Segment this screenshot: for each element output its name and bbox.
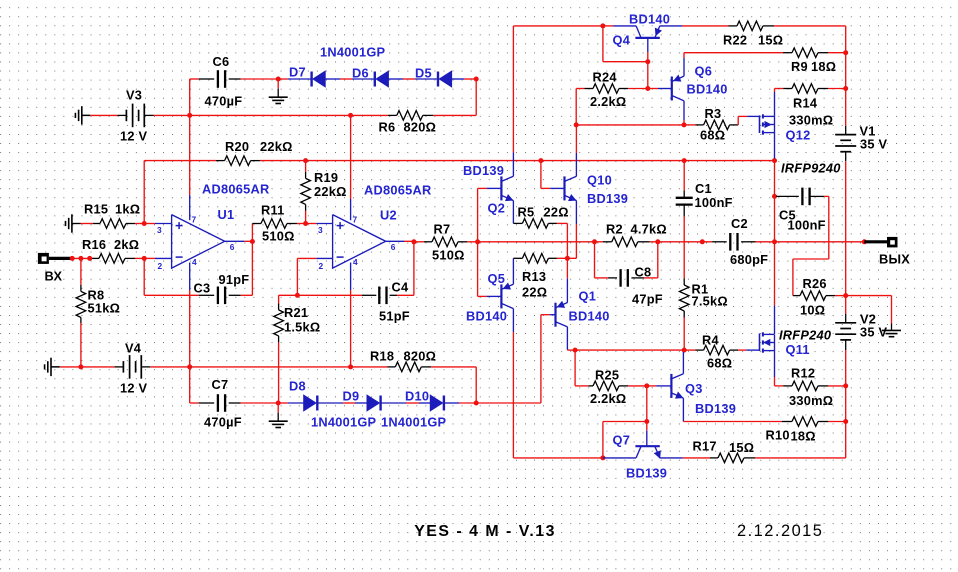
svg-text:Q11: Q11 [786, 342, 810, 357]
wire R6 right to diode column [423, 114, 434, 116]
wire R18 right to diode column [421, 366, 431, 368]
resistor R20 [225, 156, 251, 166]
svg-text:68Ω: 68Ω [707, 356, 732, 371]
battery V3 12V [125, 110, 127, 122]
svg-text:2.2kΩ: 2.2kΩ [590, 391, 626, 406]
resistor R14 [792, 84, 818, 94]
wire C4 loop down from U2 output [413, 242, 415, 295]
wire C1 bottom to R1 [683, 205, 685, 217]
node R12 rail junction [843, 383, 848, 388]
wire C5 node to output row [774, 196, 776, 241]
battery V4 12V [122, 361, 124, 373]
wire R16 to U1 pin2 [125, 257, 135, 259]
wire R26 right to rail junction [826, 295, 835, 297]
svg-text:C3: C3 [194, 281, 211, 296]
node V4 C7 junction [187, 364, 192, 369]
svg-text:2.2kΩ: 2.2kΩ [590, 94, 626, 109]
capacitor C8 47pF [619, 269, 621, 287]
ground for V3 [74, 113, 76, 118]
node R24 Q10 R3 junction [574, 122, 579, 127]
mosfet Q12 IRFP9240 [759, 115, 761, 133]
wire R10 row [683, 421, 782, 423]
wire R3 right jog up to Q12 gate [730, 124, 739, 126]
svg-text:R13: R13 [522, 269, 546, 284]
capacitor C2 680pF [712, 241, 727, 243]
svg-text:22Ω: 22Ω [544, 205, 569, 220]
wire Q7 emitter to R17 [660, 457, 683, 459]
resistor R22 [737, 21, 763, 31]
svg-text:U1: U1 [218, 207, 235, 222]
svg-text:R15: R15 [84, 202, 108, 217]
resistor R11 [252, 223, 261, 225]
resistor R8 vertical [80, 258, 82, 285]
svg-text:330mΩ: 330mΩ [789, 113, 833, 128]
svg-text:12 V: 12 V [120, 381, 148, 396]
svg-text:V3: V3 [126, 88, 142, 103]
svg-text:BD139: BD139 [463, 163, 504, 178]
wire C8 left branch [594, 242, 596, 278]
wire mid rail to C1 [306, 160, 685, 162]
svg-text:1N4001GP: 1N4001GP [311, 415, 377, 430]
wire midrail to V2 top [845, 296, 847, 314]
wire V1 bottom to midrail [845, 152, 847, 162]
svg-text:18Ω: 18Ω [791, 429, 816, 444]
wire C3 to U1 output [229, 294, 241, 296]
svg-text:4: 4 [353, 257, 358, 267]
node Q7 row junction [600, 455, 605, 460]
node R10 rail junction [843, 419, 848, 424]
wire Q4 base node down to R24 node [647, 62, 649, 89]
resistor R21 vertical [278, 295, 280, 303]
svg-text:R6: R6 [379, 120, 396, 135]
svg-text:BD140: BD140 [629, 12, 670, 27]
svg-text:R20: R20 [225, 139, 249, 154]
battery V1 35V [835, 134, 856, 136]
wire Q1 collector dropper to R4 row [566, 327, 568, 350]
ground at D7 node [277, 79, 279, 89]
wire Q7 base lead down [646, 422, 648, 431]
svg-text:D8: D8 [289, 379, 306, 394]
svg-text:C6: C6 [213, 54, 230, 69]
capacitor C3 91pF [217, 287, 219, 305]
svg-text:22Ω: 22Ω [522, 285, 547, 300]
wire main row R2 to C2 [658, 241, 712, 243]
svg-text:Q12: Q12 [786, 128, 811, 143]
wire C1 top lead from mid rail [683, 161, 685, 191]
node diode D8 anode ground junction [276, 401, 281, 406]
node C4 R21 pin2 junction [295, 293, 300, 298]
node Q4 base jog junction [645, 59, 650, 64]
node R11 R19 U2 pin3 junction [303, 221, 308, 226]
wire U1 pin4 supply [189, 263, 191, 291]
svg-text:ВХ: ВХ [45, 269, 63, 284]
svg-text:C7: C7 [212, 377, 229, 392]
svg-text:Q2: Q2 [488, 201, 506, 216]
wire Q11 source to R12 [774, 351, 776, 377]
node Q6 collector R3 junction [682, 122, 687, 127]
node U2 output junction [411, 239, 416, 244]
resistor R2 [595, 241, 604, 243]
wire U1 output pin6 [225, 240, 245, 242]
resistor R25 [575, 385, 588, 387]
wire V2 bottom rail [845, 340, 847, 350]
wire output row down to Q11 drain [774, 242, 776, 305]
wire Q6 base lead [648, 88, 658, 90]
svg-text:22kΩ: 22kΩ [314, 184, 347, 199]
svg-text:Q1: Q1 [579, 289, 597, 304]
wire Q7 collector lead [603, 457, 636, 459]
wire Q4 base dropper [647, 38, 649, 52]
svg-text:R4: R4 [702, 333, 719, 348]
node output row Q12 Q11 junction [772, 239, 777, 244]
diode D8 1N4001GP [316, 396, 318, 411]
svg-text:6: 6 [391, 242, 396, 252]
resistor R26 [793, 295, 800, 297]
svg-text:D5: D5 [415, 66, 432, 81]
wire Q4 base jog to top rail [603, 61, 648, 63]
wire R15 ground lead [81, 223, 94, 225]
wire Q7 base jog row [603, 421, 647, 423]
wire C6 to ground node [229, 78, 241, 80]
transistor Q1 BD140 [554, 303, 556, 327]
wire Q3 emitter dropper to R10 row [682, 398, 684, 421]
svg-text:35 V: 35 V [860, 137, 888, 152]
diode D7 1N4001GP [310, 72, 312, 87]
wire C5 right jog down to R26 [810, 195, 824, 197]
wire D10 cathode to junction [444, 402, 459, 404]
svg-text:R17: R17 [693, 439, 717, 454]
svg-text:18Ω: 18Ω [811, 59, 836, 74]
svg-text:R14: R14 [793, 96, 818, 111]
ground for R15 [65, 221, 67, 226]
wire Q11 channel vertical [774, 335, 776, 351]
wire to R18 [351, 366, 388, 368]
resistor R4 [704, 345, 730, 355]
svg-text:V4: V4 [125, 341, 142, 356]
svg-text:2kΩ: 2kΩ [114, 237, 139, 252]
svg-text:10Ω: 10Ω [800, 303, 825, 318]
node diode D7 anode ground junction [276, 77, 281, 82]
wire R17 right lead [744, 457, 755, 459]
connector VYH output [887, 237, 898, 248]
wire R21 top corner [279, 294, 298, 296]
svg-text:510Ω: 510Ω [432, 248, 465, 263]
svg-text:3: 3 [157, 225, 162, 235]
wire V3 ground lead [82, 114, 90, 116]
node R5 R13 Q1 emitter junction [565, 256, 570, 261]
node U1 inverting input junction [142, 256, 147, 261]
wire U2 pin4 supply [350, 263, 352, 291]
svg-text:BD139: BD139 [587, 191, 628, 206]
svg-text:R21: R21 [284, 305, 308, 320]
svg-text:68Ω: 68Ω [700, 128, 725, 143]
wire R4 left lead [684, 349, 695, 351]
wire D7 anode lead [278, 78, 288, 80]
ground at supply midpoint [882, 329, 901, 331]
svg-text:AD8065AR: AD8065AR [364, 183, 431, 198]
transistor Q10 BD139 [563, 176, 565, 200]
connector BX input [38, 253, 49, 264]
node Q1 collector R25 junction [573, 348, 578, 353]
wire D9 to D10 [381, 402, 406, 404]
wire BX to R16 [72, 257, 92, 259]
wire C7 drop from V4 junction [189, 367, 191, 403]
resistor R16 [99, 254, 125, 264]
svg-text:2.12.2015: 2.12.2015 [737, 522, 823, 540]
resistor R18 [395, 362, 421, 372]
wire Q4 emitter to R22 [660, 25, 682, 27]
svg-text:Q5: Q5 [488, 271, 506, 286]
node U1 noninverting input junction [142, 221, 147, 226]
resistor R13 [513, 257, 522, 259]
wire to R6 [351, 114, 388, 116]
svg-text:100nF: 100nF [788, 218, 826, 233]
wire R5 right down to R13 node [548, 222, 557, 224]
node U2 pin4 supply junction [348, 364, 353, 369]
svg-text:R2: R2 [606, 222, 623, 237]
svg-text:7.5kΩ: 7.5kΩ [692, 294, 728, 309]
capacitor C4 51pF [378, 287, 380, 305]
svg-text:Q7: Q7 [613, 433, 631, 448]
svg-text:R9: R9 [791, 59, 808, 74]
node V1 V2 R26 midrail junction [843, 293, 848, 298]
wire riser R18 to D10 [475, 367, 477, 403]
transistor Q2 BD139 [500, 176, 502, 200]
diode D9 [379, 396, 381, 411]
wire Q12 channel vertical [774, 116, 776, 132]
svg-text:BD139: BD139 [626, 466, 667, 481]
wire U1 output up to R11 [251, 224, 253, 242]
svg-text:Q3: Q3 [685, 381, 703, 396]
wire R13 right to emitter node [548, 257, 557, 259]
wire Q3 base lead [647, 385, 656, 387]
svg-text:R19: R19 [314, 170, 338, 185]
capacitor C6 470uF [217, 70, 219, 88]
svg-text:680pF: 680pF [730, 252, 768, 267]
wire Q10 base feed from mid rail [540, 161, 542, 189]
svg-text:R11: R11 [261, 203, 285, 218]
svg-text:U2: U2 [380, 208, 397, 223]
wire Q11 drain riser [774, 305, 776, 334]
svg-text:1N4001GP: 1N4001GP [381, 415, 447, 430]
svg-text:R12: R12 [791, 366, 815, 381]
capacitor C7 470uF [217, 394, 219, 412]
wire Q5 collector dropper to Q7 row [512, 309, 514, 332]
svg-text:R10: R10 [766, 428, 790, 443]
svg-text:47pF: 47pF [632, 292, 663, 307]
wire top rail from Q2 collector corner [513, 25, 603, 27]
svg-text:C4: C4 [392, 280, 409, 295]
svg-text:1kΩ: 1kΩ [115, 202, 140, 217]
svg-text:R5: R5 [518, 205, 535, 220]
node U2 pin7 supply junction [348, 113, 353, 118]
resistor R10 [792, 417, 818, 427]
svg-text:15Ω: 15Ω [758, 33, 783, 48]
wire Q1 base feed from diode row [540, 315, 542, 403]
wire main row R7 to R2 [478, 241, 595, 243]
wire Q6 collector dropper to R3 row [683, 101, 685, 120]
resistor R7 [414, 241, 424, 243]
svg-text:3: 3 [318, 225, 323, 235]
diode D10 [443, 396, 445, 411]
wire R15 to U1 pin3 [126, 223, 135, 225]
capacitor C5 100nF [801, 188, 803, 206]
diode D6 [374, 72, 376, 87]
wire top rail to Q4 collector [603, 25, 614, 27]
wire Q3 collector riser to R4 row [682, 352, 684, 374]
op-amp U2 AD8065AR [333, 215, 386, 269]
wire riser R7 to Q2 base [477, 188, 479, 241]
svg-text:51kΩ: 51kΩ [88, 301, 121, 316]
svg-text:35 V: 35 V [860, 325, 888, 340]
svg-text:R16: R16 [82, 237, 106, 252]
svg-text:2: 2 [158, 261, 163, 271]
wire C4 to pin2 junction [362, 294, 376, 296]
node R20 R19 rail junction [303, 158, 308, 163]
node rail Q12 source junction [772, 158, 777, 163]
wire R3 left lead [684, 124, 696, 126]
wire C2 to output connector [756, 241, 865, 243]
svg-text:15Ω: 15Ω [729, 440, 754, 455]
resistor R15 [100, 219, 126, 229]
wire Q12 drain to R14 [774, 92, 776, 116]
svg-text:470µF: 470µF [205, 94, 243, 109]
mosfet Q11 IRFP240 [759, 333, 761, 351]
wire R20 left riser from U1 pin3 node [143, 161, 145, 224]
capacitor C1 100nF [676, 197, 693, 199]
wire R14 right to rail [818, 88, 828, 90]
wire D5 cathode to corner [452, 78, 464, 80]
svg-text:D9: D9 [343, 389, 360, 404]
wire V4 plus to C7 junction [141, 366, 150, 368]
svg-text:D10: D10 [405, 389, 429, 404]
wire R12 right to rail [818, 385, 828, 387]
ground for V4 [44, 364, 46, 369]
wire R20 right to junction [251, 160, 260, 162]
wire riser diode D5 to R6 [475, 79, 477, 115]
svg-text:Q4: Q4 [613, 33, 631, 48]
svg-text:IRFP9240: IRFP9240 [781, 161, 841, 176]
resistor R9 [792, 48, 818, 58]
resistor R5 [522, 219, 548, 229]
transistor Q6 BD140 [671, 77, 673, 101]
wire diode node to Q1 base riser [476, 402, 541, 404]
node mid wire junction dot [700, 239, 705, 244]
node D10 R18 junction [474, 401, 479, 406]
wire R4 row from Q1 collector [575, 349, 684, 351]
node R1 Q3 R4 junction [682, 348, 687, 353]
svg-text:AD8065AR: AD8065AR [202, 182, 269, 197]
wire Q2 emitter to R5 [512, 201, 514, 224]
node R2 left junction [592, 239, 597, 244]
node output connector junction [862, 239, 867, 244]
svg-text:R25: R25 [595, 368, 619, 383]
svg-text:22kΩ: 22kΩ [260, 139, 293, 154]
svg-text:R24: R24 [593, 70, 618, 85]
svg-text:2: 2 [319, 261, 324, 271]
svg-text:IRFP240: IRFP240 [779, 328, 831, 343]
svg-text:Q6: Q6 [695, 64, 713, 79]
svg-text:91pF: 91pF [219, 272, 250, 287]
wire U2 output pin6 [386, 240, 404, 242]
svg-text:YES - 4 M - V.13: YES - 4 M - V.13 [414, 523, 556, 540]
wire output thick lead [864, 240, 887, 243]
svg-text:6: 6 [230, 242, 235, 252]
svg-text:820Ω: 820Ω [404, 120, 437, 135]
wire Q10 collector riser to R24 node [575, 153, 577, 176]
resistor R12 [792, 381, 818, 391]
wire rail V1 top [845, 53, 847, 89]
svg-text:BD140: BD140 [466, 309, 507, 324]
wire V4 row to U2 pin4 junction [190, 366, 351, 368]
wire V4 ground lead [51, 366, 60, 368]
svg-text:4.7kΩ: 4.7kΩ [631, 222, 667, 237]
svg-text:BD140: BD140 [569, 309, 610, 324]
node top rail junction [600, 23, 605, 28]
wire U1 pin7 supply [189, 115, 191, 195]
op-amp U1 AD8065AR [172, 215, 225, 269]
wire U2 pin2 lead [296, 258, 298, 295]
resistor R17 [718, 453, 744, 463]
svg-text:C2: C2 [731, 216, 748, 231]
ground at D8 node [277, 403, 279, 413]
wire rail corner to R17 [845, 422, 847, 458]
wire R22 right to V1 rail [763, 25, 774, 27]
wire C6 riser from V3 junction [189, 79, 191, 115]
wire Q1 emitter riser to R13 node [566, 279, 568, 303]
battery V2 35V [835, 322, 856, 324]
svg-text:12 V: 12 V [120, 129, 148, 144]
svg-text:D6: D6 [352, 66, 369, 81]
transistor Q3 BD139 [670, 374, 672, 398]
svg-text:51pF: 51pF [379, 309, 410, 324]
svg-text:C1: C1 [695, 181, 712, 196]
resistor R1 vertical [683, 278, 685, 285]
wire C5 left lead [775, 195, 777, 197]
wire R9 right to rail [818, 52, 828, 54]
svg-text:R18: R18 [370, 349, 394, 364]
node R8 V4 junction [78, 364, 83, 369]
wire U2 pin7 supply [350, 115, 352, 199]
node mid rail C1 junction [682, 158, 687, 163]
wire Q2 collector riser to Q4 collector [512, 153, 514, 177]
resistor R6 [397, 111, 423, 121]
wire U1 pin3 lead [144, 223, 155, 225]
resistor R24 [576, 88, 584, 90]
wire rail to R10 junction [845, 386, 847, 422]
node U1 output junction [250, 239, 255, 244]
wire R25 dropper from Q1 collector node [574, 350, 576, 386]
svg-text:ВЫХ: ВЫХ [879, 252, 910, 267]
node R9 rail junction [843, 50, 848, 55]
node mid rail Q10 base junction [538, 158, 543, 163]
wire C7 to ground node [229, 402, 241, 404]
svg-text:7: 7 [353, 214, 358, 224]
node R24 right Q6 base junction [645, 86, 650, 91]
transistor Q7 BD139 rotated [635, 445, 659, 447]
node R14 rail junction [843, 86, 848, 91]
wire U2 pin3 lead [306, 223, 317, 225]
wire V3 plus to C6 junction [144, 114, 153, 116]
wire D7 to D6 [325, 78, 340, 80]
node C5 junction [772, 194, 777, 199]
diode D5 [437, 72, 439, 87]
node R7 output junction [475, 239, 480, 244]
node R25 right Q3 base junction [644, 383, 649, 388]
svg-text:470µF: 470µF [204, 415, 242, 430]
wire V4 minus lead [81, 366, 115, 368]
wire Q10 emitter dropper [575, 201, 577, 224]
